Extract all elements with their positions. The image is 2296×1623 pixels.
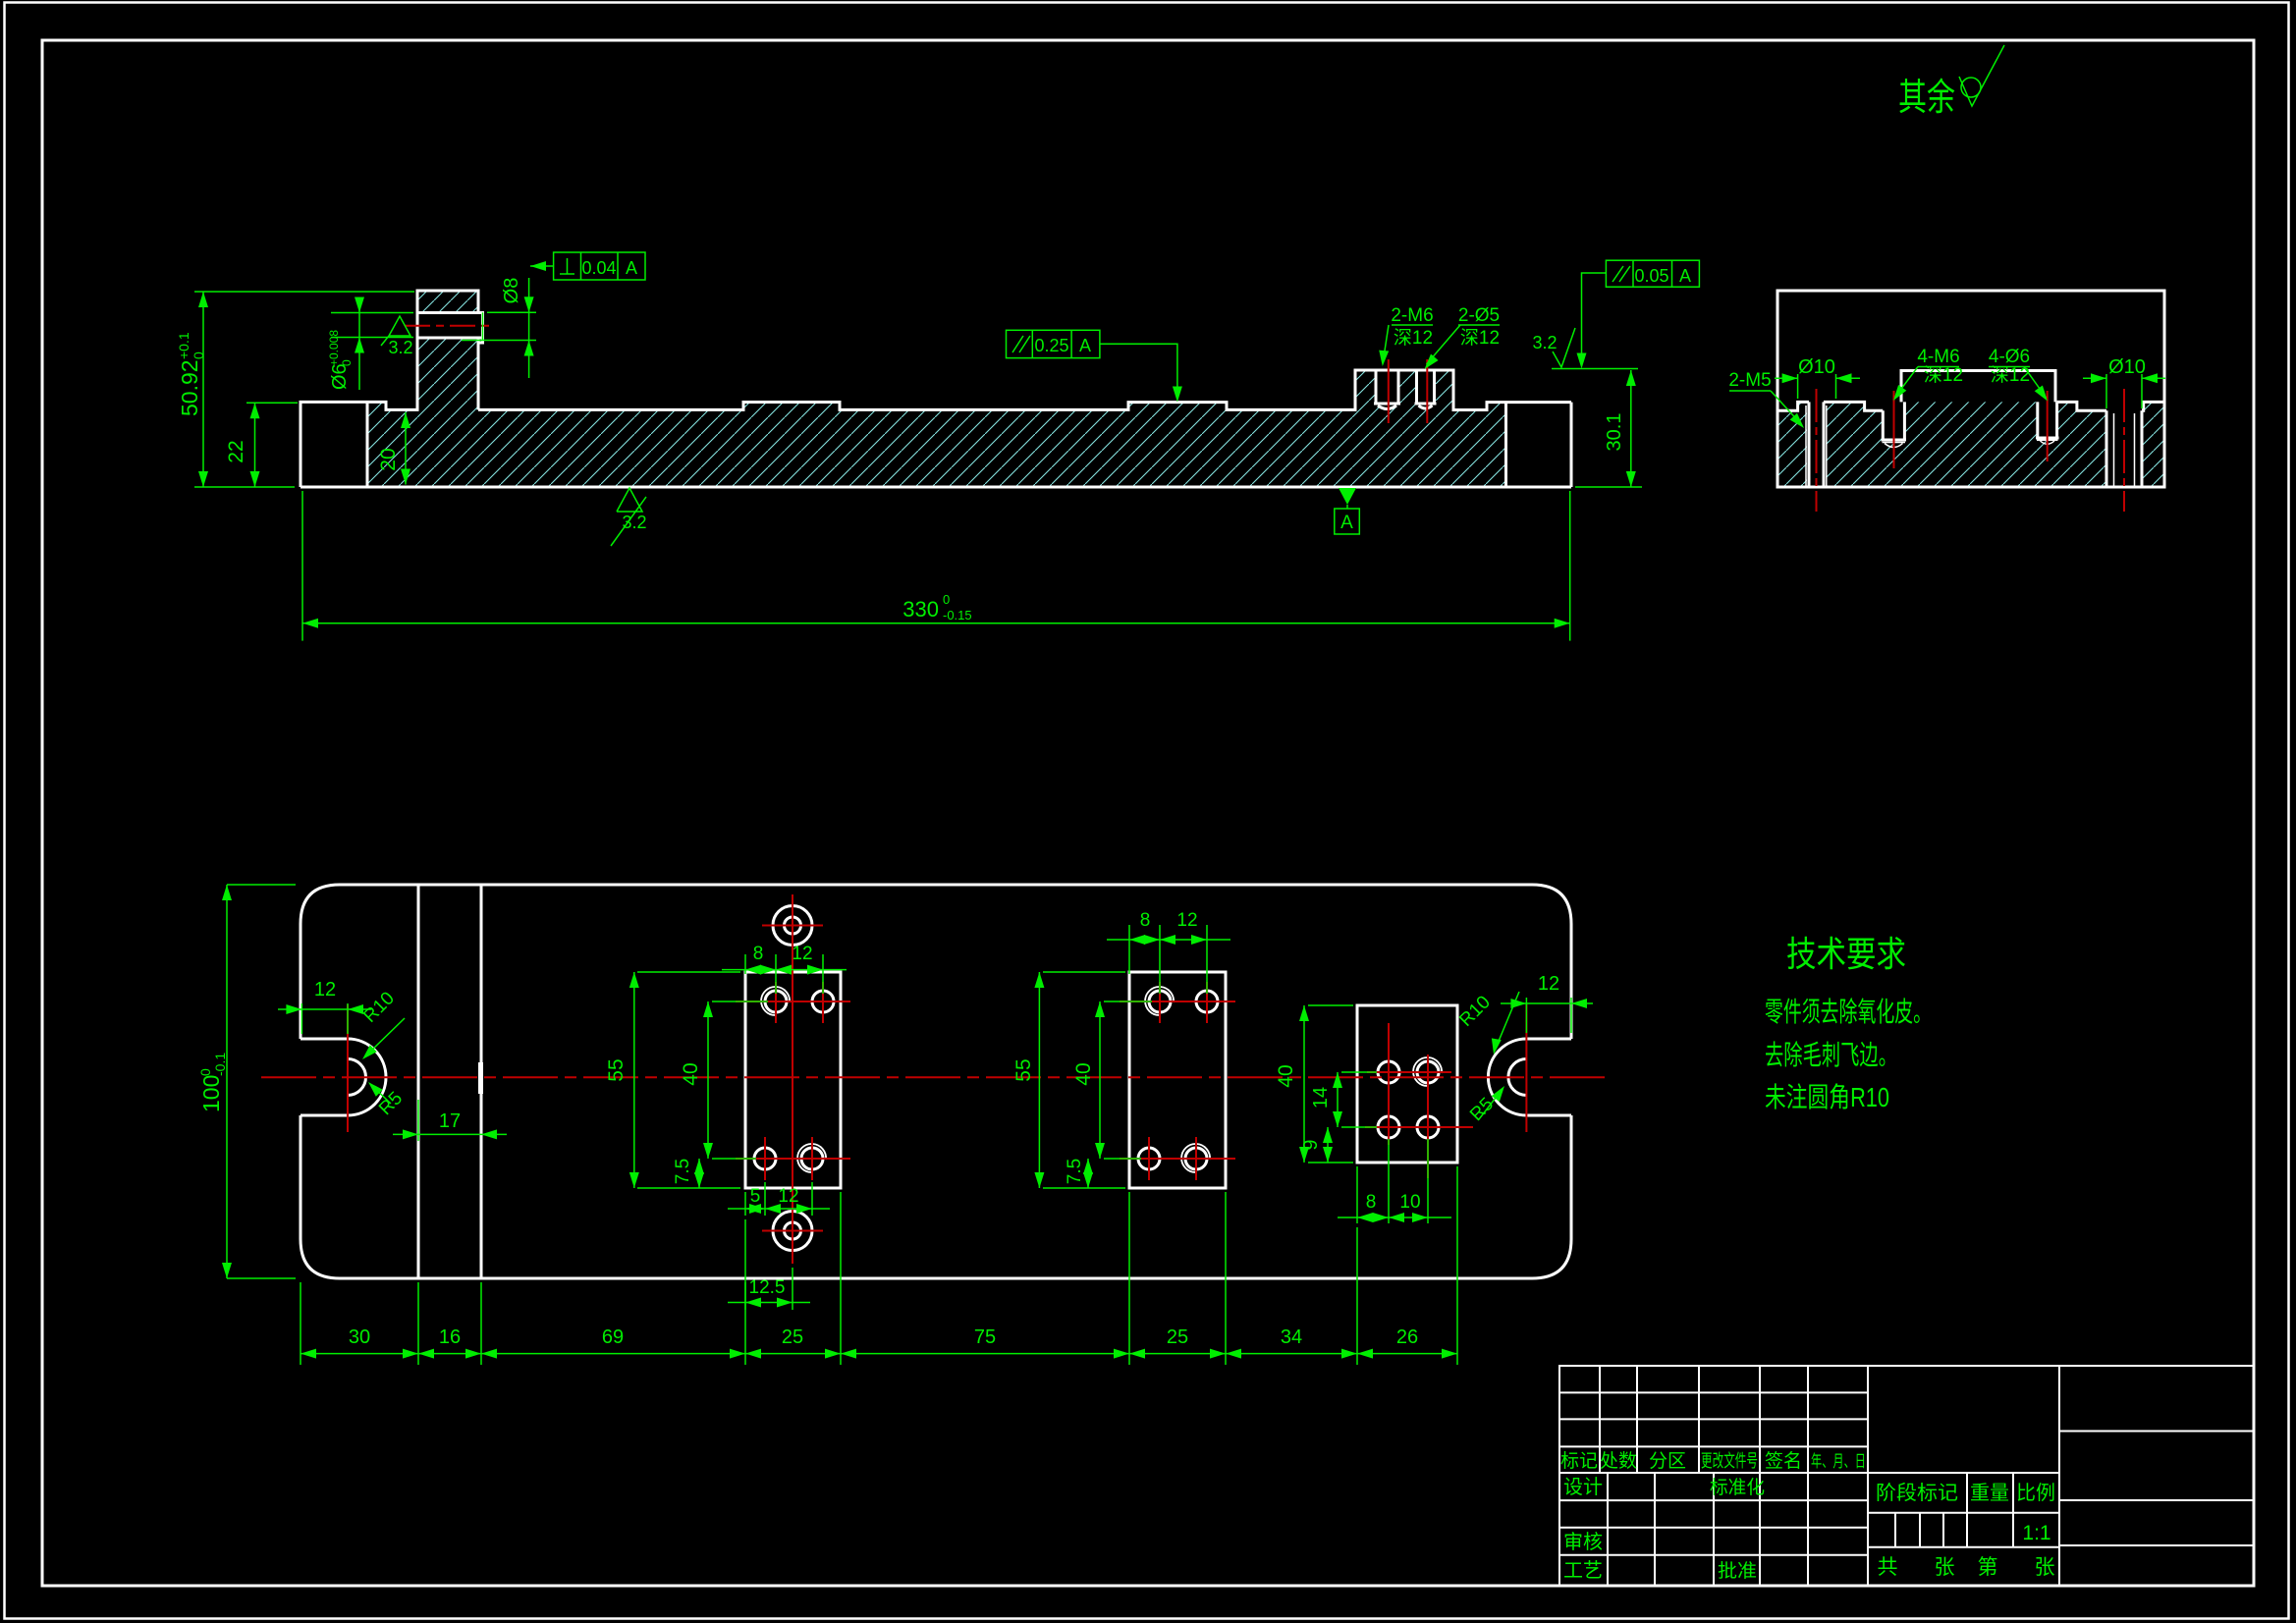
- dim 20: [405, 412, 407, 485]
- svg-text:Ø8: Ø8: [501, 278, 522, 304]
- svg-text:标准化: 标准化: [1710, 1477, 1765, 1498]
- svg-text:25: 25: [782, 1326, 803, 1348]
- svg-text:12: 12: [778, 1186, 798, 1207]
- right section view hatched body: [1777, 402, 2164, 487]
- svg-text:0: 0: [191, 352, 206, 359]
- svg-text:30: 30: [349, 1326, 370, 1348]
- svg-text:比例: 比例: [2016, 1482, 2055, 1504]
- svg-text:0: 0: [340, 359, 354, 366]
- svg-text:30.1: 30.1: [1604, 413, 1625, 452]
- pad3 dim 14: [1341, 1071, 1377, 1073]
- pad 1 outline: [745, 972, 841, 1188]
- svg-text:5: 5: [750, 1186, 761, 1207]
- svg-text:0.25: 0.25: [1034, 336, 1068, 355]
- svg-text:22: 22: [225, 440, 247, 462]
- pad 3 outline: [1357, 1005, 1457, 1163]
- svg-text:-0.1: -0.1: [212, 1053, 228, 1076]
- pad2 dim 7.5: [1087, 1159, 1089, 1188]
- svg-text:0.04: 0.04: [581, 258, 616, 278]
- pad3 dim 40: [1308, 1004, 1353, 1006]
- svg-text:去除毛刺飞边。: 去除毛刺飞边。: [1765, 1040, 1897, 1070]
- svg-text:55: 55: [605, 1058, 628, 1081]
- front section view: hatched body: [367, 291, 1506, 487]
- svg-text:25: 25: [1167, 1326, 1188, 1348]
- pad1 dim 7.5: [698, 1159, 700, 1188]
- svg-text:张: 张: [1935, 1556, 1955, 1579]
- svg-text:12: 12: [1538, 973, 1559, 995]
- pad2 dim 55: [1043, 971, 1125, 973]
- svg-text:标记: 标记: [1560, 1450, 1598, 1472]
- pad 2 outline: [1129, 972, 1226, 1188]
- svg-text:-0.15: -0.15: [943, 608, 972, 622]
- svg-text:12: 12: [1176, 910, 1197, 931]
- plan view outline (rounded plate): [301, 885, 1571, 1278]
- svg-text:更改文件号: 更改文件号: [1701, 1451, 1758, 1471]
- svg-text:2-M6: 2-M6: [1391, 305, 1433, 326]
- pad holes: [765, 991, 787, 1012]
- svg-text:处数: 处数: [1600, 1450, 1637, 1472]
- plan view red centerlines: [261, 1076, 1611, 1078]
- right section view outline: [1777, 291, 2164, 487]
- pad1 dim 40: [712, 1001, 768, 1002]
- svg-text:3.2: 3.2: [622, 513, 646, 532]
- svg-text:其余: 其余: [1898, 78, 1955, 119]
- right slot: [1488, 1039, 1571, 1115]
- surface 3.2 under base: [611, 488, 646, 546]
- svg-text:2-M5: 2-M5: [1728, 370, 1771, 391]
- svg-text:7.5: 7.5: [673, 1159, 693, 1184]
- dim D8: [487, 311, 536, 313]
- dim 30.1: [1575, 486, 1642, 488]
- svg-text:40: 40: [1275, 1064, 1297, 1087]
- svg-text:3.2: 3.2: [388, 338, 412, 357]
- svg-text:4-M6: 4-M6: [1917, 347, 1959, 367]
- svg-text:张: 张: [2035, 1556, 2055, 1579]
- washer bottom: [773, 1212, 812, 1251]
- svg-text:10: 10: [1399, 1192, 1420, 1213]
- svg-text:26: 26: [1396, 1326, 1418, 1348]
- svg-text:0: 0: [943, 592, 950, 607]
- svg-text:16: 16: [439, 1326, 461, 1348]
- pad1 dim 55: [637, 971, 740, 973]
- datum A symbol: [1339, 488, 1356, 505]
- FCF parallel 0.05 A: [1606, 260, 1699, 287]
- washer top: [773, 906, 812, 946]
- svg-text:A: A: [1079, 336, 1091, 355]
- svg-text:未注圆角R10: 未注圆角R10: [1765, 1082, 1889, 1112]
- svg-text:50.92: 50.92: [177, 359, 202, 416]
- svg-text:A: A: [1679, 266, 1691, 286]
- FCF parallel 0.25 A: [1007, 330, 1100, 357]
- vertical line at 46: [480, 885, 483, 1278]
- svg-text:9: 9: [1300, 1139, 1322, 1150]
- left slot inner R5 arc: [348, 1059, 366, 1096]
- vertical line at 30: [417, 885, 420, 1278]
- svg-text:A: A: [626, 258, 637, 278]
- bottom dim row: [300, 1282, 301, 1365]
- pad3 dim 9: [1327, 1127, 1329, 1163]
- svg-text:330: 330: [902, 597, 939, 622]
- svg-text:40: 40: [1072, 1062, 1095, 1085]
- svg-text:100: 100: [198, 1075, 224, 1112]
- svg-text:12.5: 12.5: [749, 1277, 786, 1298]
- surface 3.2 at boss: [381, 316, 410, 346]
- svg-text:7.5: 7.5: [1065, 1159, 1085, 1184]
- front view red centerlines: [405, 325, 495, 327]
- svg-text:14: 14: [1310, 1087, 1332, 1109]
- svg-text:工艺: 工艺: [1563, 1559, 1603, 1582]
- svg-text:Ø6: Ø6: [329, 363, 351, 390]
- svg-text:8: 8: [1366, 1192, 1377, 1213]
- right slot inner R5 arc: [1508, 1059, 1527, 1096]
- dim 330 0/-0.15: [301, 491, 303, 641]
- small key mark on line 46: [478, 1062, 483, 1094]
- svg-text:75: 75: [974, 1326, 996, 1348]
- svg-text:4-Ø6: 4-Ø6: [1989, 347, 2030, 367]
- svg-text:共: 共: [1878, 1556, 1898, 1579]
- svg-text:深12: 深12: [1394, 327, 1433, 349]
- dim 22: [246, 402, 298, 404]
- svg-text:年、月、日: 年、月、日: [1811, 1452, 1866, 1471]
- FCF perpendicular 0.04 A: [554, 252, 645, 280]
- svg-text:34: 34: [1281, 1326, 1302, 1348]
- dim D6 +0.008: [331, 312, 413, 314]
- front view outline: [301, 291, 1571, 487]
- dim 100 0/-0.1: [227, 884, 296, 886]
- svg-text:第: 第: [1978, 1556, 1998, 1579]
- svg-text:1:1: 1:1: [2022, 1522, 2050, 1544]
- svg-text:0.05: 0.05: [1634, 266, 1668, 286]
- svg-text:3.2: 3.2: [1532, 333, 1557, 352]
- svg-text:+0.008: +0.008: [327, 330, 341, 366]
- svg-text:20: 20: [377, 448, 400, 470]
- left slot: [301, 1039, 386, 1115]
- svg-text:8: 8: [1140, 910, 1151, 931]
- svg-text:55: 55: [1012, 1058, 1035, 1081]
- svg-text:17: 17: [439, 1110, 461, 1132]
- right view red centerlines: [1816, 389, 1818, 512]
- svg-text:深12: 深12: [1924, 364, 1963, 386]
- svg-text:69: 69: [602, 1326, 624, 1348]
- svg-text:设计: 设计: [1563, 1476, 1603, 1498]
- svg-text:技术要求: 技术要求: [1786, 934, 1906, 974]
- svg-text:签名: 签名: [1765, 1450, 1802, 1472]
- svg-text:12: 12: [314, 979, 336, 1001]
- svg-text:12: 12: [792, 944, 812, 964]
- svg-text:8: 8: [753, 944, 764, 964]
- svg-text:零件须去除氧化皮。: 零件须去除氧化皮。: [1765, 997, 1932, 1027]
- svg-text:深12: 深12: [1460, 327, 1500, 349]
- pad2 dim 40: [1104, 1001, 1152, 1002]
- svg-text:审核: 审核: [1563, 1531, 1603, 1553]
- svg-text:批准: 批准: [1718, 1560, 1757, 1582]
- svg-text:2-Ø5: 2-Ø5: [1458, 305, 1500, 326]
- svg-text:重量: 重量: [1970, 1482, 2009, 1504]
- title block: [1559, 1366, 2254, 1586]
- svg-text:A: A: [1340, 513, 1353, 533]
- svg-text:Ø10: Ø10: [2108, 356, 2146, 378]
- svg-text:分区: 分区: [1649, 1450, 1686, 1472]
- dim 50.92 +0.1/0: [194, 291, 414, 293]
- svg-text:阶段标记: 阶段标记: [1876, 1482, 1958, 1504]
- svg-text:0: 0: [197, 1068, 213, 1076]
- svg-text:Ø10: Ø10: [1798, 356, 1835, 378]
- svg-text:+0.1: +0.1: [176, 332, 191, 359]
- svg-text:40: 40: [680, 1062, 702, 1085]
